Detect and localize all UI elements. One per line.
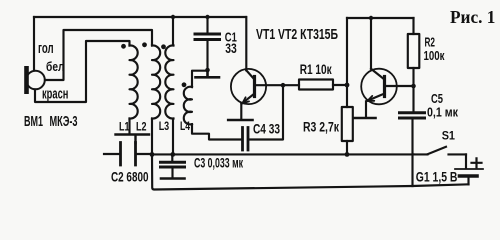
wire from top rail down to microphone top (гол lead) bbox=[33, 17, 35, 71]
svg-text:33: 33 bbox=[225, 41, 237, 56]
wire VT2 emitter down bbox=[365, 101, 367, 116]
polarity dot of L1 bbox=[121, 44, 126, 49]
svg-text:R1 10к: R1 10к bbox=[300, 62, 332, 77]
wire riser from R1/R3 node up to collector bracket bbox=[346, 18, 348, 85]
wire lower rail (common) from C2 junction to switch bbox=[152, 153, 414, 155]
inductor L4 winding bbox=[184, 87, 192, 125]
label S1 bbox=[442, 130, 456, 142]
node dot R1 right / R3 top bbox=[345, 83, 350, 88]
svg-text:L4: L4 bbox=[180, 121, 190, 133]
switch S1 bbox=[414, 147, 467, 155]
label R3 value bbox=[303, 120, 339, 135]
wire R2 bottom lead to base node bbox=[412, 68, 414, 86]
wire top supply rail bbox=[34, 16, 246, 18]
polarity dot of L3 bbox=[161, 44, 166, 49]
wire L1 bottom lead down to bar bbox=[128, 119, 130, 134]
svg-text:S1: S1 bbox=[442, 130, 456, 142]
capacitor C5 bbox=[400, 86, 425, 186]
capacitor C2 bbox=[104, 143, 151, 166]
node dot on top rail above C1 bbox=[205, 15, 209, 19]
wire VT1 emitter down bbox=[240, 104, 242, 119]
wire L4 bottom lead over to C4 bbox=[192, 124, 242, 139]
node dot VT2 base / R2 bottom / C5 top bbox=[411, 84, 416, 89]
svg-text:МКЭ-3: МКЭ-3 bbox=[50, 113, 78, 130]
wire VT1 collector to top rail bbox=[245, 17, 247, 70]
svg-text:L1: L1 bbox=[119, 122, 130, 134]
wire красн: mic bottom lead down, right, up and over to L1 top bbox=[35, 41, 130, 102]
wire R3 bottom lead to lower rail bbox=[346, 141, 348, 154]
svg-text:L2: L2 bbox=[136, 122, 147, 134]
svg-text:C5: C5 bbox=[431, 91, 443, 106]
wire C4 right lead up to base node bbox=[249, 85, 283, 139]
capacitor C4 bbox=[243, 128, 249, 151]
label бел bbox=[46, 59, 65, 74]
label L2 bbox=[136, 122, 147, 134]
svg-text:бел: бел bbox=[46, 59, 65, 74]
label Рис. 1 bbox=[450, 7, 495, 27]
node dot C1 bottom bbox=[205, 68, 210, 73]
wire switch to battery top bbox=[465, 154, 467, 167]
resistor R3 bbox=[342, 107, 353, 141]
wire R2 top lead from bracket bbox=[412, 18, 414, 34]
label красн bbox=[42, 86, 68, 102]
inductor L3 winding bbox=[165, 45, 173, 118]
svg-text:L3: L3 bbox=[159, 121, 170, 133]
inductor L2 winding bbox=[152, 45, 160, 118]
wire bar under L1/L2 labels to C2 right plate bbox=[116, 135, 150, 144]
wire R1 right lead bbox=[333, 84, 347, 86]
battery G1 bbox=[455, 169, 483, 184]
svg-text:VT1 VT2 КТ315Б: VT1 VT2 КТ315Б bbox=[256, 27, 338, 43]
svg-text:100к: 100к bbox=[424, 48, 445, 63]
node dot on top rail above L3 bbox=[171, 15, 175, 19]
svg-text:G1 1,5 В: G1 1,5 В bbox=[416, 169, 458, 185]
polarity dot of L2 bbox=[142, 42, 147, 47]
label BM1 MKE-3 bbox=[24, 113, 78, 130]
wire top bracket rail (VT2 collector node) bbox=[347, 17, 414, 19]
node dot VT1 base / C4 junction bbox=[281, 83, 286, 88]
wire L3 bottom lead down to lower rail junction bbox=[172, 119, 174, 155]
label L3 bbox=[159, 121, 170, 133]
ground symbol under C1 node bbox=[196, 70, 220, 77]
capacitor C1 bbox=[195, 17, 220, 70]
svg-text:C4 33: C4 33 bbox=[253, 121, 280, 136]
polarity dot of L4 bbox=[182, 82, 187, 87]
label L1 bbox=[119, 122, 130, 134]
svg-text:C2 6800: C2 6800 bbox=[111, 168, 149, 184]
ground symbol under VT1 emitter bbox=[228, 119, 252, 122]
label G1 value bbox=[416, 169, 458, 185]
label C2 value bbox=[111, 168, 149, 184]
transistor VT1 bbox=[231, 69, 266, 104]
svg-text:красн: красн bbox=[42, 86, 68, 102]
label L4 bbox=[180, 121, 190, 133]
wire VT2 collector up to bracket bbox=[370, 18, 372, 69]
label battery plus bbox=[472, 158, 482, 167]
svg-text:Рис. 1: Рис. 1 bbox=[450, 7, 495, 27]
wire L3 top lead from top rail bbox=[172, 17, 174, 46]
wire VT1 base line to R1 bbox=[256, 84, 299, 86]
transistor VT2 bbox=[361, 69, 397, 105]
ground symbol under VT2 emitter bbox=[354, 117, 376, 120]
label гол bbox=[38, 41, 54, 57]
wire VT2 base to R2 bottom node bbox=[386, 85, 414, 87]
label R2 value bbox=[424, 35, 445, 63]
svg-text:гол: гол bbox=[38, 41, 54, 57]
inductor L1 winding bbox=[130, 45, 138, 118]
node dot R3 bottom on lower rail bbox=[345, 152, 350, 157]
svg-text:0,1 мк: 0,1 мк bbox=[427, 105, 458, 120]
wire bottom return rail from battery to C2 junction riser bbox=[152, 154, 469, 189]
capacitor C3 bbox=[161, 154, 185, 176]
resistor R2 bbox=[408, 34, 420, 68]
wire L4 top lead from C1 bottom node bbox=[192, 71, 208, 87]
label C3 value bbox=[194, 155, 243, 170]
microphone BM1 symbol bbox=[24, 66, 45, 94]
resistor R1 bbox=[299, 80, 333, 90]
label VT1 VT2 type bbox=[256, 27, 338, 43]
svg-text:ВМ1: ВМ1 bbox=[24, 113, 43, 130]
wire L2 bottom lead down to lower rail junction bbox=[151, 119, 153, 155]
label C4 value bbox=[253, 121, 280, 136]
node dot VT2 collector on bracket bbox=[369, 16, 373, 20]
wire бел: mic right lead up and over to L2 top bbox=[45, 30, 152, 80]
svg-text:R3 2,7к: R3 2,7к bbox=[303, 120, 339, 135]
ground symbol under C3 bbox=[161, 177, 185, 180]
label C1 value bbox=[225, 30, 237, 56]
svg-text:C3 0,033 мк: C3 0,033 мк bbox=[194, 155, 243, 170]
node dot L2/C2 lower rail junction bbox=[150, 152, 155, 157]
wire R3 top lead bbox=[346, 85, 348, 107]
label C5 value bbox=[427, 91, 458, 120]
label R1 value bbox=[300, 62, 332, 77]
node dot L3/C3 junction on lower rail bbox=[170, 152, 175, 157]
